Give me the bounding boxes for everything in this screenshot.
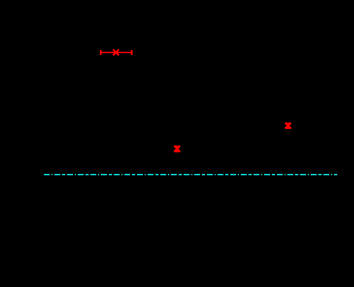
P3 error bar line	[287, 124, 289, 128]
P2 top cap	[174, 146, 180, 148]
P3 top cap	[285, 123, 291, 125]
data point P1 : horizontal error bar with x marker	[101, 50, 132, 56]
data point P3 : vertical error bar with x marker	[285, 123, 291, 129]
P1 x marker	[113, 50, 119, 56]
P2 bottom cap	[174, 150, 180, 152]
dashed cyan reference line	[44, 174, 337, 176]
P2 x marker	[174, 146, 180, 152]
P1 left cap	[100, 50, 102, 55]
P1 right cap	[131, 50, 133, 55]
P2 error bar line	[176, 147, 178, 152]
P1 error bar line	[101, 51, 132, 53]
data point P2 : vertical error bar with x marker	[174, 146, 180, 152]
P3 bottom cap	[285, 127, 291, 129]
P3 x marker	[285, 123, 291, 129]
